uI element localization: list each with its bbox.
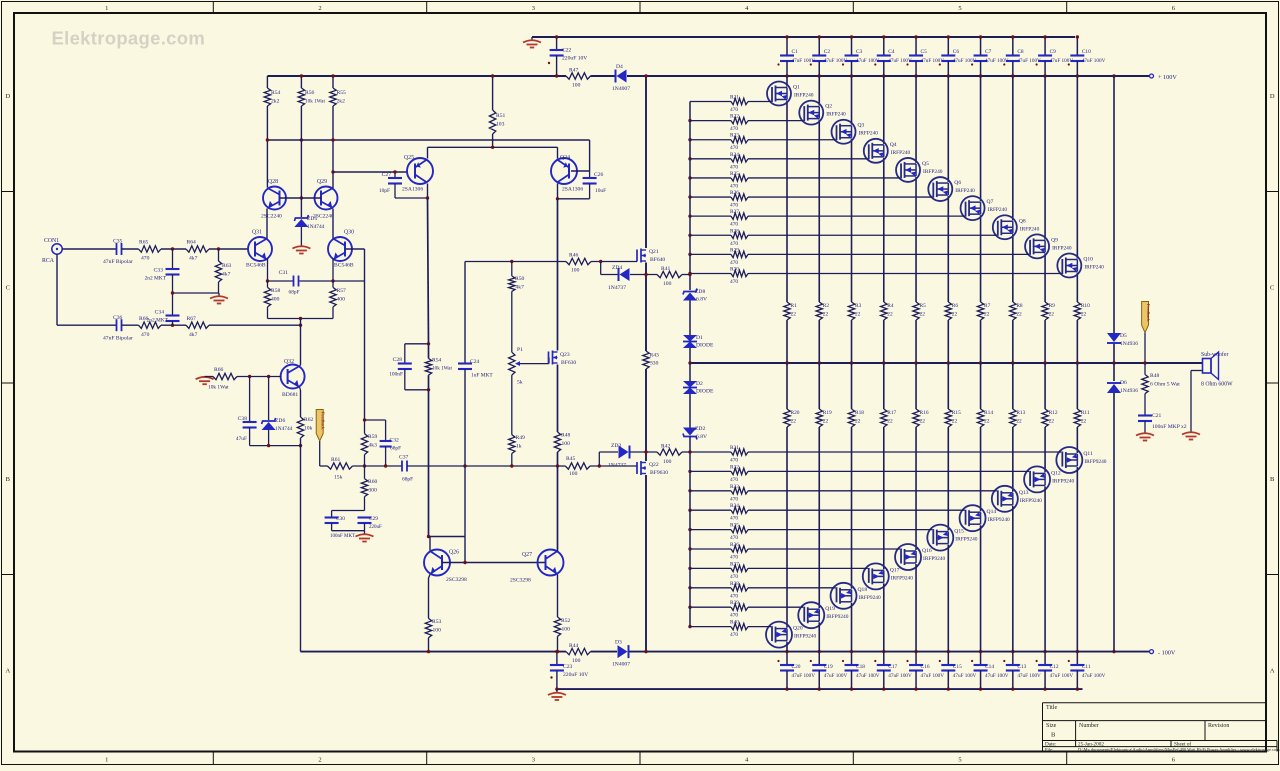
- svg-text:47uF 100V: 47uF 100V: [856, 673, 880, 679]
- svg-text:100nF: 100nF: [389, 372, 403, 378]
- wire R42 to gate bus: [682, 451, 690, 453]
- mosfet Q18 IRFP9240: [831, 583, 857, 609]
- potentiometer P1 5k: [509, 352, 515, 375]
- svg-text:Q30: Q30: [344, 230, 354, 236]
- svg-text:C9: C9: [1050, 49, 1057, 55]
- wire Q32 collector: [300, 365, 301, 366]
- svg-text:10k: 10k: [304, 426, 313, 432]
- connector CON1 RCA: [52, 244, 62, 254]
- wire to mosfet Q15: [947, 427, 949, 531]
- junction: [785, 687, 788, 690]
- wire source column Q1: [786, 101, 788, 303]
- svg-text:C27: C27: [382, 172, 392, 178]
- svg-text:1N4737: 1N4737: [608, 285, 626, 291]
- svg-text:Q3: Q3: [858, 123, 865, 129]
- junction: [363, 418, 366, 421]
- capacitor C5: [915, 37, 917, 55]
- svg-text:R37: R37: [730, 561, 739, 567]
- mosfet Q22 BF9630: [636, 462, 638, 474]
- junction: [850, 74, 853, 77]
- junction: [688, 176, 691, 179]
- junction: [688, 138, 691, 141]
- resistor R54 2k2: [266, 76, 268, 88]
- junction: [1011, 687, 1014, 690]
- svg-text:R34: R34: [730, 503, 739, 509]
- svg-text:10k 1Wat: 10k 1Wat: [432, 366, 452, 372]
- svg-text:C3: C3: [856, 49, 863, 55]
- svg-text:R61: R61: [331, 457, 341, 463]
- wire C37 to C24 column: [407, 465, 465, 467]
- wire R43 to Q22: [645, 369, 647, 461]
- mosfet Q11 IRFP9240: [1056, 447, 1082, 473]
- svg-text:DIODE: DIODE: [696, 343, 714, 349]
- svg-text:100: 100: [433, 628, 442, 634]
- wire to output bus Q4: [883, 320, 885, 363]
- svg-text:IRFP240: IRFP240: [794, 93, 814, 99]
- svg-text:P1: P1: [517, 347, 523, 353]
- wire R54 to base line: [266, 106, 268, 140]
- svg-text:100: 100: [571, 268, 580, 274]
- svg-text:R60: R60: [368, 479, 378, 485]
- wire drain column Q15: [947, 545, 949, 652]
- svg-text:R65: R65: [139, 240, 149, 246]
- wire gate bus top section: [689, 102, 691, 275]
- wire source column Q14: [980, 363, 982, 409]
- svg-text:R49: R49: [516, 435, 526, 441]
- svg-text:D: D: [1270, 93, 1275, 100]
- ground ZD5: [292, 246, 310, 253]
- transistor Q27 2SC3298: [538, 550, 564, 576]
- wire Q24 base to C26: [571, 170, 590, 172]
- svg-text:470: 470: [730, 164, 738, 170]
- svg-text:R57: R57: [337, 288, 347, 294]
- wire drain column Q17: [883, 583, 885, 651]
- svg-text:47uF 100V: 47uF 100V: [1017, 58, 1041, 64]
- svg-text:3: 3: [532, 5, 535, 12]
- junction: [463, 464, 466, 467]
- wire source column Q11: [1076, 363, 1078, 409]
- junction: [644, 450, 647, 453]
- wire to output bus Q9: [1044, 320, 1046, 363]
- wire R63 to ground: [218, 282, 220, 293]
- resistor R62 10k: [297, 417, 303, 438]
- svg-text:47uF 100V: 47uF 100V: [888, 673, 912, 679]
- svg-text:R39: R39: [730, 600, 739, 606]
- svg-text:R40: R40: [730, 620, 739, 626]
- capacitor C35 47nF Bipolar: [116, 243, 118, 255]
- junction: [556, 650, 559, 653]
- junction: [644, 650, 647, 653]
- wire tail line: [268, 318, 334, 320]
- svg-text:R12: R12: [1049, 410, 1058, 416]
- svg-text:C38: C38: [238, 416, 248, 422]
- svg-text:C15: C15: [953, 664, 962, 670]
- svg-text:10pF: 10pF: [379, 188, 390, 194]
- svg-text:C5: C5: [921, 49, 928, 55]
- wire Q26 base line: [442, 562, 546, 564]
- wire R64 to Q31 base: [209, 248, 248, 250]
- wire drain column Q4: [883, 76, 885, 144]
- svg-text:R8: R8: [1016, 303, 1023, 309]
- svg-text:1k: 1k: [516, 444, 522, 450]
- junction: [688, 470, 691, 473]
- svg-text:IRFP9240: IRFP9240: [1052, 478, 1074, 484]
- svg-text:Number: Number: [1079, 723, 1099, 729]
- junction: [510, 260, 513, 263]
- wire flag to R61: [319, 441, 321, 466]
- zener ZD3 1N4737: [619, 446, 629, 459]
- wire R60 to cap pair: [364, 497, 366, 511]
- svg-text:2SC3298: 2SC3298: [446, 577, 467, 583]
- wire to output bus Q8: [1012, 320, 1014, 363]
- wire Q27 collector: [557, 550, 559, 552]
- resistor R64 4k7: [186, 246, 209, 252]
- svg-text:C4: C4: [888, 49, 895, 55]
- wire drain column Q13: [1012, 506, 1014, 652]
- mosfet Q13 IRFP9240: [992, 486, 1018, 512]
- capacitor C3: [851, 37, 853, 55]
- wire CON1 to C35: [62, 248, 116, 250]
- wire Q26 collector: [429, 537, 431, 551]
- svg-text:C16: C16: [921, 664, 930, 670]
- junction: [688, 509, 691, 512]
- capacitor C27 10pF: [394, 172, 396, 178]
- svg-text:470: 470: [730, 107, 738, 113]
- transistor Q26 2SC3298: [424, 550, 450, 576]
- svg-text:IRFP240: IRFP240: [826, 112, 846, 118]
- net flag Feedback left: [316, 410, 323, 442]
- capacitor C38 47uF: [249, 377, 251, 422]
- junction: [555, 74, 558, 77]
- ground speaker: [1182, 432, 1200, 439]
- svg-text:BF640: BF640: [650, 257, 665, 263]
- svg-text:Q22: Q22: [649, 462, 659, 468]
- junction: [785, 650, 788, 653]
- wire R66 to R67: [161, 324, 186, 326]
- wire Q24 collector to Q23 drain: [557, 348, 559, 351]
- svg-text:5: 5: [958, 5, 961, 12]
- wire Q29 collector up: [332, 140, 334, 188]
- junction: [556, 197, 559, 200]
- svg-text:470: 470: [730, 535, 738, 541]
- wire C36 to R66: [122, 324, 139, 326]
- svg-text:D4: D4: [616, 64, 623, 70]
- svg-text:R1: R1: [791, 303, 798, 309]
- svg-text:Q13: Q13: [1019, 490, 1029, 496]
- svg-text:C34: C34: [155, 310, 165, 316]
- svg-text:470: 470: [730, 458, 738, 464]
- resistor R20: [784, 409, 790, 427]
- svg-text:47nF Bipolar: 47nF Bipolar: [103, 336, 133, 342]
- junction: [331, 279, 334, 282]
- ground input filter: [210, 296, 228, 303]
- resistor R13: [1010, 409, 1016, 427]
- junction: [882, 74, 885, 77]
- resistor R48 100: [554, 432, 560, 452]
- resistor R37 gate wire: [690, 567, 731, 569]
- junction: [979, 74, 982, 77]
- svg-text:Q23: Q23: [560, 352, 570, 358]
- wire C24 column lower: [464, 466, 466, 537]
- resistor R2: [816, 302, 822, 320]
- svg-text:22: 22: [823, 419, 829, 425]
- wire tee to Q24 emitter: [557, 147, 559, 158]
- wire to output bus Q6: [947, 320, 949, 363]
- svg-text:6.8V: 6.8V: [696, 297, 707, 303]
- svg-text:470: 470: [730, 593, 738, 599]
- svg-text:R58: R58: [271, 288, 281, 294]
- wire ZD3 branch: [598, 452, 600, 466]
- wire source column Q13: [1012, 363, 1014, 409]
- svg-text:1N4744: 1N4744: [275, 426, 293, 432]
- wire R41 to gate bus: [682, 274, 690, 276]
- wire Q30 base column down: [364, 249, 366, 420]
- wire drain column Q7: [980, 76, 982, 201]
- junction: [979, 361, 982, 364]
- wire R53 to -rail: [428, 638, 430, 652]
- net flag Feedback right: [1142, 302, 1149, 333]
- wire Q25 collector down: [427, 184, 429, 199]
- wire D1 to output bus: [689, 348, 691, 363]
- wire source column Q4: [883, 158, 885, 302]
- ground feedback: [356, 534, 374, 541]
- svg-text:Revision: Revision: [1208, 723, 1229, 729]
- svg-text:22: 22: [1081, 312, 1087, 318]
- wire to output bus Q3: [851, 320, 853, 363]
- transistor Q31 BC546B: [248, 237, 272, 261]
- svg-text:C26: C26: [594, 172, 604, 178]
- svg-text:100: 100: [663, 459, 672, 465]
- junction: [1043, 35, 1046, 38]
- svg-text:B: B: [6, 476, 11, 483]
- svg-text:Q4: Q4: [890, 142, 897, 148]
- svg-text:2k2: 2k2: [337, 99, 346, 105]
- svg-text:C7: C7: [985, 49, 992, 55]
- svg-text:ZD3: ZD3: [611, 443, 621, 449]
- svg-text:100: 100: [572, 658, 581, 664]
- junction: [1011, 35, 1014, 38]
- wire source column Q17: [883, 363, 885, 409]
- svg-text:A: A: [1270, 668, 1275, 675]
- svg-text:22: 22: [855, 312, 861, 318]
- capacitor C19: [818, 652, 820, 665]
- junction: [688, 567, 691, 570]
- svg-text:IRFP9240: IRFP9240: [988, 517, 1010, 523]
- wire node to R59 top corner: [364, 420, 366, 434]
- wire to mosfet Q16: [915, 427, 917, 550]
- svg-text:CON1: CON1: [44, 238, 59, 244]
- svg-text:R54: R54: [432, 358, 442, 364]
- wire source column Q12: [1044, 363, 1046, 409]
- junction: [427, 535, 430, 538]
- junction: [266, 279, 269, 282]
- junction: [850, 687, 853, 690]
- capacitor C15: [947, 652, 949, 665]
- wire R67 to tail column: [209, 324, 301, 326]
- resistor R47 100: [566, 73, 591, 79]
- wire ZD8 to D1: [689, 301, 691, 336]
- capacitor C26 10uF: [589, 171, 591, 178]
- capacitor C37 68pF: [401, 461, 403, 472]
- resistor R42 100: [657, 449, 682, 455]
- svg-text:ZD4: ZD4: [612, 265, 622, 271]
- wire CON1 down: [56, 254, 58, 325]
- wire C35 to R65: [122, 248, 139, 250]
- resistor R3: [848, 302, 854, 320]
- wire gate bus to zener ZD8: [689, 275, 691, 291]
- svg-text:Q27: Q27: [522, 552, 532, 558]
- resistor R24 gate wire: [690, 158, 731, 160]
- resistor R32 gate wire: [690, 470, 731, 472]
- svg-text:Q26: Q26: [449, 550, 459, 556]
- svg-text:470: 470: [730, 279, 738, 285]
- wire bottom capacitor ground line: [557, 688, 1083, 690]
- capacitor C21 100nF MKP x2: [1138, 414, 1152, 416]
- wire lower input to C36: [57, 324, 117, 326]
- svg-text:470: 470: [730, 574, 738, 580]
- svg-text:103: 103: [496, 122, 505, 128]
- svg-text:Q16: Q16: [922, 548, 932, 554]
- junction: [171, 247, 174, 250]
- wire drain column Q8: [1012, 76, 1014, 220]
- zener ZD8 6.8V: [683, 293, 697, 301]
- junction: [1043, 650, 1046, 653]
- junction: [785, 74, 788, 77]
- capacitor C11: [1076, 652, 1078, 665]
- svg-text:470: 470: [730, 145, 738, 151]
- svg-text:IRFP240: IRFP240: [988, 207, 1008, 213]
- svg-text:470: 470: [730, 516, 738, 522]
- wire Q21 gate: [591, 261, 637, 263]
- svg-text:R55: R55: [337, 90, 347, 96]
- zener ZD4 1N4737: [620, 268, 630, 281]
- svg-text:100: 100: [562, 627, 571, 633]
- svg-text:C17: C17: [888, 664, 897, 670]
- capacitor C33 2n2 MKT: [172, 249, 174, 269]
- wire ZD4 branch: [600, 262, 602, 275]
- wire caps to ground: [364, 531, 366, 534]
- svg-text:D2: D2: [696, 381, 703, 387]
- svg-text:1N4936: 1N4936: [1120, 388, 1138, 394]
- svg-text:R47: R47: [569, 68, 579, 74]
- svg-text:R4: R4: [887, 303, 894, 309]
- transistor Q25 2SA1306: [407, 158, 433, 184]
- junction: [217, 247, 220, 250]
- svg-text:47uF 100V: 47uF 100V: [824, 58, 848, 64]
- junction: [1112, 361, 1115, 364]
- junction: [1112, 74, 1115, 77]
- junction: [688, 547, 691, 550]
- wire source column Q18: [851, 363, 853, 409]
- capacitor C20: [786, 652, 788, 665]
- svg-text:100nF MKT: 100nF MKT: [330, 534, 355, 539]
- junction: [1076, 361, 1079, 364]
- capacitor C29 220uF: [358, 516, 372, 518]
- svg-text:BF9630: BF9630: [650, 470, 668, 476]
- svg-text:R52: R52: [561, 618, 571, 624]
- resistor R34 gate wire: [690, 509, 731, 511]
- junction: [555, 687, 558, 690]
- resistor R51 100: [492, 76, 494, 110]
- wire to mosfet Q13: [1012, 427, 1014, 492]
- resistor R11: [1074, 409, 1080, 427]
- svg-text:470: 470: [730, 126, 738, 132]
- svg-text:22: 22: [791, 312, 797, 318]
- svg-text:68pF: 68pF: [289, 290, 300, 296]
- svg-text:R14: R14: [984, 410, 993, 416]
- wire source column Q10: [1076, 272, 1078, 302]
- wire source column Q16: [915, 363, 917, 409]
- wire drain column Q16: [915, 564, 917, 652]
- svg-text:47uF 100V: 47uF 100V: [1082, 673, 1106, 679]
- svg-text:Q11: Q11: [1083, 451, 1093, 457]
- junction: [785, 35, 788, 38]
- wire output bus to D6: [1113, 363, 1115, 381]
- resistor R27 gate wire: [690, 215, 731, 217]
- resistor R41 100: [657, 271, 682, 277]
- junction: [555, 35, 558, 38]
- capacitor C18: [851, 652, 853, 665]
- junction: [947, 650, 950, 653]
- junction: [688, 625, 691, 628]
- wire drain column Q6: [947, 76, 949, 182]
- wire R49 to bias line: [511, 454, 513, 467]
- junction: [1143, 361, 1146, 364]
- svg-text:Q7: Q7: [987, 199, 994, 205]
- svg-text:Q31: Q31: [252, 230, 262, 236]
- svg-text:3: 3: [532, 757, 535, 764]
- svg-text:22: 22: [1049, 312, 1055, 318]
- junction: [688, 489, 691, 492]
- resistor R17: [881, 409, 887, 427]
- svg-text:IRFP9240: IRFP9240: [891, 575, 913, 581]
- junction: [688, 119, 691, 122]
- svg-text:Q9: Q9: [1051, 237, 1058, 243]
- wire drain column Q2: [818, 76, 820, 106]
- svg-text:C19: C19: [824, 664, 833, 670]
- junction: [363, 464, 366, 467]
- resistor R36 gate wire: [690, 548, 731, 550]
- junction: [248, 375, 251, 378]
- svg-text:470: 470: [141, 332, 150, 338]
- capacitor C4: [883, 37, 885, 55]
- wire R62 to -rail: [300, 438, 302, 652]
- svg-text:C22: C22: [562, 48, 572, 54]
- wire R56 to ZD5: [300, 106, 302, 217]
- svg-text:22: 22: [984, 419, 990, 425]
- svg-text:R33: R33: [730, 484, 739, 490]
- junction: [331, 170, 334, 173]
- mosfet Q20 IRFP9240: [766, 622, 792, 648]
- svg-text:400: 400: [337, 297, 346, 303]
- junction: [299, 317, 302, 320]
- svg-text:Q21: Q21: [649, 249, 659, 255]
- svg-text:C24: C24: [470, 359, 480, 365]
- wire R57 to tail line: [332, 307, 334, 319]
- svg-text:R10: R10: [1081, 303, 1090, 309]
- svg-text:470: 470: [730, 477, 738, 483]
- wire R54 column: [428, 344, 430, 359]
- capacitor C1: [786, 37, 788, 55]
- wire Q29 emitter to Q30 collector: [332, 209, 334, 239]
- mosfet Q15 IRFP9240: [927, 525, 953, 551]
- svg-text:IRFP240: IRFP240: [923, 169, 943, 175]
- junction: [299, 444, 302, 447]
- mosfet Q19 IRFP9240: [798, 602, 824, 628]
- svg-text:300: 300: [369, 488, 378, 494]
- wire D5 to output bus: [1113, 344, 1115, 363]
- wire output bus: [690, 362, 1203, 364]
